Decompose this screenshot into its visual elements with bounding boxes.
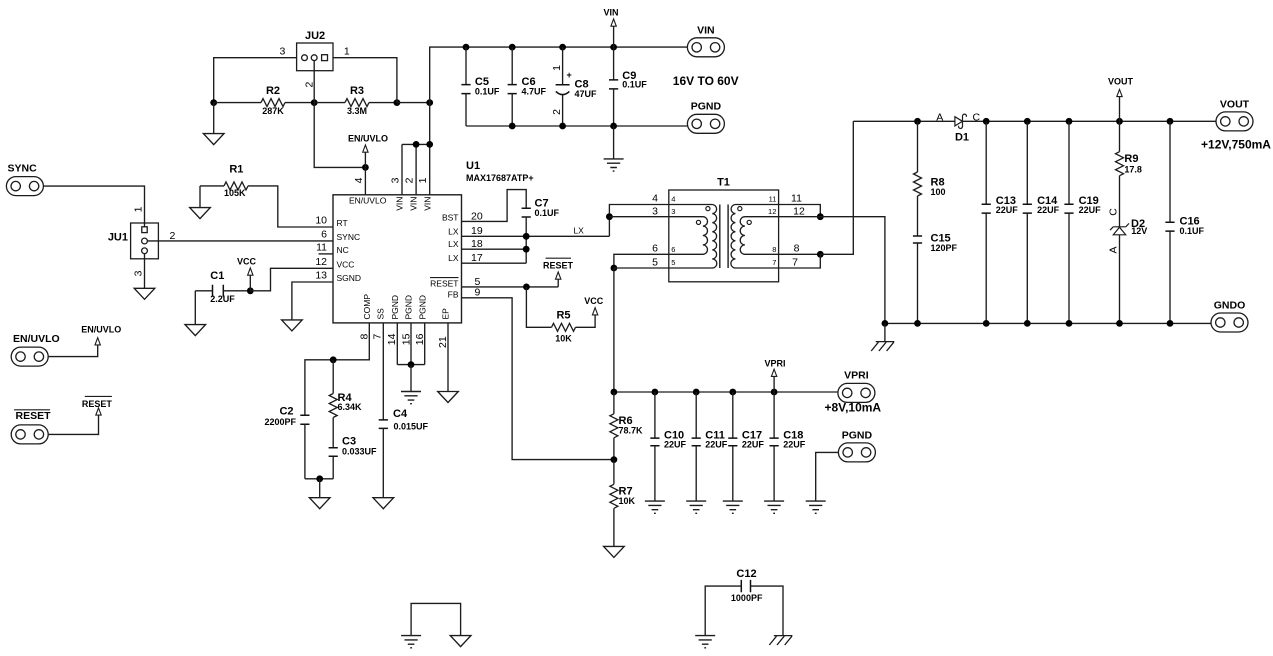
svg-text:2200PF: 2200PF [264,417,296,427]
svg-text:7: 7 [772,258,776,267]
net flag EN/UVLO (left) [95,338,100,345]
wire VOUT rail left of D1 [853,120,955,122]
svg-text:11: 11 [769,195,777,204]
wire PGND ground stub [613,126,615,159]
junction C6 bottom [509,123,516,130]
wire EN/UVLO flag stub [364,152,366,167]
svg-text:0.1UF: 0.1UF [1180,226,1205,236]
phase dot winding 3-6 [696,220,700,224]
junction LX pin18 [523,246,530,253]
svg-text:47UF: 47UF [575,89,598,99]
ground (open triangle) below R2 node [203,134,224,145]
wire C1 right lead [223,290,250,292]
wire VOUT rail right of D1 [963,120,1217,122]
junction R3 right / JU2 pin1 [394,99,401,106]
svg-text:3: 3 [132,270,144,276]
junction C9 top [610,44,617,51]
svg-text:VIN: VIN [395,197,405,211]
wire C19 bottom lead [1068,213,1070,323]
svg-text:6: 6 [671,245,675,254]
wire R8 to C15 [917,196,919,236]
junction C5 top [463,44,470,51]
capacitor C11 [692,438,701,446]
wire chassis ground stub at GNDO [884,323,886,341]
connector SYNC [6,177,43,196]
wire U1 LX pin19 (LX net) [462,235,610,237]
wire C4 bottom lead [382,428,384,497]
svg-text:3: 3 [279,46,285,58]
wire C8 bottom lead [562,95,564,126]
wire JU2 pin3 to ground node [214,58,297,103]
ground (open triangle) below EP [438,392,459,403]
wire C18 top lead [773,392,775,438]
svg-text:EN/UVLO: EN/UVLO [348,133,388,143]
wire EN/UVLO connector to flag [48,345,97,357]
svg-text:JU1: JU1 [108,231,128,243]
wire VCC flag stub at C1 [249,275,251,291]
svg-text:VCC: VCC [584,296,604,306]
connector VPRI [838,383,875,402]
svg-text:EP: EP [441,308,451,320]
wire R1 to U1 RT [248,186,333,227]
svg-text:14: 14 [386,333,398,345]
jumper JU1 [131,223,159,259]
wire PGND pins tie [397,364,424,366]
svg-text:SGND: SGND [337,273,362,283]
capacitor C13 [982,204,991,213]
wire U1 pin2 VIN [415,144,417,194]
svg-text:22UF: 22UF [1079,205,1102,215]
svg-text:0.033UF: 0.033UF [342,446,377,456]
wire secondary to VOUT rail [820,121,853,254]
svg-text:R2: R2 [266,85,280,97]
svg-text:D1: D1 [955,132,969,144]
junction R2 left / ground [210,99,217,106]
connector PGND (VPRI side) [838,443,875,462]
ground (earth) below input caps [604,159,624,171]
wire PGND connector to ground [816,452,839,501]
phase dot winding 11-7 [738,207,742,211]
svg-text:SYNC: SYNC [337,232,361,242]
junction C18 top / VPRI flag [771,389,778,396]
ground (open triangle) below JU1 [134,288,155,299]
junction C16 top [1167,118,1174,125]
svg-text:8: 8 [358,334,370,340]
svg-text:RESET: RESET [543,261,574,271]
wire C9 top lead [613,47,615,80]
svg-text:1000PF: 1000PF [731,593,763,603]
wire U1 PGND pin14 [396,323,398,365]
wire ground stub below C2/C3 [319,479,321,498]
capacitor C10 [650,438,659,446]
wire VIN power flag stub [613,26,615,47]
wire VPRI rail [614,391,838,393]
junction JU2 pin2 / R2 / R3 [311,99,318,106]
svg-text:VOUT: VOUT [1220,98,1250,110]
svg-text:3.3M: 3.3M [347,106,367,116]
svg-text:3: 3 [389,177,401,183]
transformer T1 primary winding pins 4-5 [669,205,717,269]
connector GNDO [1211,313,1248,332]
resistor R6 [610,414,618,438]
ground (chassis) at GNDO rail [871,342,894,351]
junction R8 top [914,118,921,125]
wire C7 bottom to LX node [525,217,527,263]
wire D2 anode to GNDO rail [1119,235,1121,324]
wire R6 top lead [613,392,615,414]
ground (earth) below U1 PGND [401,392,421,404]
svg-text:11: 11 [316,241,327,253]
wire VIN pins tie [402,143,430,145]
transformer T1 primary winding pins 3-6 [669,217,708,255]
svg-text:0.015UF: 0.015UF [394,422,429,432]
ground (earth) below C12 left [695,636,715,648]
svg-text:6: 6 [321,228,327,240]
svg-text:NC: NC [337,245,349,255]
wire bottom input rail [466,125,687,127]
svg-text:RESET: RESET [16,410,52,422]
svg-text:EN/UVLO: EN/UVLO [81,324,121,334]
wire U1 EP to ground [447,323,449,392]
wire C19 top lead [1068,121,1070,204]
svg-text:LX: LX [448,239,459,249]
junction C2/C3 ground [316,475,323,482]
svg-text:BST: BST [442,212,459,222]
svg-text:7: 7 [792,256,798,268]
svg-text:2.2UF: 2.2UF [210,294,235,304]
capacitor C5 [461,85,470,94]
svg-text:RESET: RESET [82,399,113,409]
resistor R8 [914,172,922,196]
diode D1 (schottky) [955,114,967,128]
svg-text:17: 17 [471,252,483,264]
svg-text:4.7UF: 4.7UF [522,87,547,97]
svg-text:VCC: VCC [337,259,355,269]
svg-text:78.7K: 78.7K [619,425,644,435]
diode D2 (zener 12V) [1110,223,1129,234]
ground (open triangle) at SGND [282,320,303,331]
capacitor C19 [1064,204,1073,213]
wire T1 pin5 [614,267,669,269]
svg-text:2: 2 [551,109,563,115]
svg-text:22UF: 22UF [783,439,806,449]
svg-text:C2: C2 [279,405,293,417]
svg-text:12: 12 [768,207,776,216]
svg-text:U1: U1 [466,160,480,172]
wire JU2 pin1 down to R3 right [333,58,397,103]
wire C6 top lead [511,47,513,85]
wire C2 bottom lead [304,424,306,479]
capacitor C3 [329,448,338,457]
svg-text:20: 20 [471,210,483,222]
svg-text:EN/UVLO: EN/UVLO [13,333,60,345]
wire C14 top lead [1026,121,1028,204]
svg-text:12V: 12V [1131,226,1147,236]
svg-text:0.1UF: 0.1UF [622,80,647,90]
ground (open triangle) at tie right [450,636,471,647]
connector RESET [11,425,48,444]
svg-text:10K: 10K [619,496,636,506]
wire C10 bottom lead [654,446,656,501]
wire C11 bottom lead [695,446,697,501]
svg-text:R3: R3 [350,85,364,97]
svg-text:6.34K: 6.34K [338,402,363,412]
svg-text:+12V,750mA: +12V,750mA [1201,137,1271,151]
svg-text:LX: LX [448,253,459,263]
junction LX pin19 / C7 [523,233,530,240]
wire C5 bottom lead [465,94,467,126]
wire VIN rail (vertical + top horizontal) [430,47,688,195]
wire U1 RESET pin5 [462,286,559,288]
svg-text:PGND: PGND [417,295,427,320]
svg-text:22UF: 22UF [1037,205,1060,215]
wire C12 left lead to ground [705,586,741,636]
svg-text:100: 100 [931,187,946,197]
svg-text:COMP: COMP [362,294,372,320]
svg-text:105K: 105K [224,188,246,198]
svg-text:LX: LX [448,226,459,236]
connector PGND (input) [687,114,724,133]
junction FB / R6 / R7 [611,456,618,463]
svg-text:A: A [1108,246,1120,253]
wire U1 COMP to C2/R4 node [305,323,369,415]
op-amp U1 MAX17687ATP+ body [333,195,462,323]
svg-text:VIN: VIN [409,197,419,211]
wire C1 left lead to ground [195,291,212,325]
capacitor C9 [609,80,618,89]
junction C17 top [729,389,736,396]
capacitor C14 [1023,204,1032,213]
wire RESET node down to R5 [526,287,551,327]
junction D2 bottom [1116,320,1123,327]
transformer T1 secondary winding pins 12-8 [740,217,778,255]
svg-text:VIN: VIN [697,25,715,37]
power flag VIN [611,19,616,26]
wire C15 bottom lead [917,243,919,323]
ground (open triangle) at R1 [190,208,211,219]
junction C11 top [693,389,700,396]
capacitor C6 [508,85,517,94]
wire C9 bottom lead [613,89,615,126]
wire C1 node to U1 VCC [250,268,333,291]
capacitor C17 [728,438,737,446]
capacitor C18 [770,438,779,446]
wire U1 LX pin18 [462,248,527,250]
wire R1 left lead [200,185,224,187]
net flag EN/UVLO at U1 pin4 [363,145,368,152]
ground (open triangle) below C1 [185,325,206,336]
junction R9 top [1116,118,1123,125]
junction T1 pin3 / LX [606,213,613,220]
ground (earth) below C17 [723,501,743,513]
transformer T1 body [669,190,779,282]
svg-text:PGND: PGND [842,429,873,441]
None [741,580,750,592]
svg-text:LX: LX [573,226,584,236]
svg-text:VPRI: VPRI [844,370,869,382]
capacitor C8 (polarized) [556,85,570,95]
capacitor C16 [1165,222,1174,231]
wire U1 BST to C7 [462,190,527,222]
connector VIN [687,38,724,57]
wire R3 right lead [369,102,397,104]
junction C8 bottom [559,123,566,130]
svg-text:1: 1 [344,46,350,58]
svg-text:4: 4 [671,195,675,204]
resistor R3 [345,99,369,107]
svg-text:11: 11 [791,192,802,204]
wire GNDO rail [885,322,1212,324]
svg-text:17.8: 17.8 [1124,164,1142,174]
resistor R2 [261,99,285,107]
wire U1 SS to C4 [382,323,384,420]
junction C13 top / D1 cathode [983,118,990,125]
ground (earth) below PGND connector [806,501,826,513]
svg-text:1: 1 [132,206,144,212]
wire T1 pin8 [779,253,821,255]
resistor R7 [610,484,618,508]
wire C13 bottom lead [985,213,987,323]
svg-text:22UF: 22UF [664,439,687,449]
svg-text:5: 5 [652,256,658,268]
junction VIN pin2 tie [413,141,420,148]
svg-text:2: 2 [404,177,416,183]
connector EN/UVLO [11,347,48,366]
svg-text:+8V,10mA: +8V,10mA [824,400,881,414]
wire C17 bottom lead [732,446,734,501]
resistor R9 [1116,152,1124,176]
svg-text:RESET: RESET [430,278,458,288]
junction C8 top [559,44,566,51]
wire T1 pin3 [609,216,668,218]
wire VPRI vertical [613,268,615,392]
wire R4 top lead [332,360,334,394]
svg-text:0.1UF: 0.1UF [475,87,500,97]
resistor R1 [224,182,248,190]
svg-text:22UF: 22UF [996,205,1019,215]
svg-text:PGND: PGND [390,295,400,320]
junction T1 pin11/pin12 [817,213,824,220]
wire C5 top lead [465,47,467,85]
junction C10 top [652,389,659,396]
svg-text:RT: RT [337,218,348,228]
svg-text:GNDO: GNDO [1214,300,1246,312]
net flag RESET (left) [96,408,101,415]
svg-text:VOUT: VOUT [1108,76,1134,86]
ground (open triangle) below R7 [604,546,625,557]
wire C16 top lead [1169,121,1171,222]
svg-text:C1: C1 [210,270,224,282]
junction C19 top [1066,118,1073,125]
svg-text:9: 9 [475,287,481,299]
resistor R5 [552,323,576,331]
wire R1 ground stub [199,186,201,208]
junction pin12 line / GNDO rail [882,320,889,327]
wire C3 bottom lead [332,456,334,479]
wire R3 node to VIN rail [397,102,430,104]
wire C6 bottom lead [511,94,513,126]
svg-text:3: 3 [652,206,658,218]
jumper JU2 [297,43,333,71]
svg-text:1: 1 [417,177,429,183]
wire C8 top lead [562,47,564,85]
svg-text:C12: C12 [736,568,756,580]
capacitor C7 [522,208,531,217]
svg-text:A: A [936,111,943,123]
wire R5 right to VCC flag [576,315,596,327]
wire U1 FB to R6/R7 node [462,298,614,460]
svg-text:22UF: 22UF [705,439,728,449]
capacitor C2 [300,415,309,424]
svg-text:8: 8 [794,243,800,255]
svg-text:SS: SS [376,308,386,320]
wire ground tie U-shape [411,603,461,635]
svg-text:13: 13 [315,270,327,282]
wire T1 pin6 [614,254,669,268]
capacitor C15 [913,236,922,243]
svg-text:16V TO 60V: 16V TO 60V [673,74,739,88]
ground (open triangle) below C4 [373,498,394,509]
wire R6 bottom lead [613,438,615,460]
svg-text:C4: C4 [393,408,408,420]
wire C2/C3 bottom tie [305,478,333,480]
junction C14 top [1024,118,1031,125]
wire C13 top lead [985,121,987,204]
connector VOUT [1216,112,1253,131]
junction C6 top [509,44,516,51]
ground (earth) below C18 [764,501,784,513]
wire U1 pin3 VIN [401,144,403,194]
wire SYNC to JU1 pin1 [43,186,144,227]
svg-text:PGND: PGND [691,101,722,113]
junction VIN pin1 tie [426,141,433,148]
svg-text:120PF: 120PF [931,243,958,253]
wire VPRI flag stub [773,376,775,392]
svg-text:8: 8 [772,245,776,254]
junction VCC at C1 [247,287,254,294]
svg-text:SYNC: SYNC [8,163,38,175]
svg-text:5: 5 [671,258,675,267]
junction C19 bottom [1066,320,1073,327]
junction T1 pin5 / VPRI line [611,265,618,272]
wire JU2 pin2 down to EN/UVLO node [314,61,365,168]
svg-text:12: 12 [793,206,805,218]
capacitor C4 [379,420,388,429]
wire R9 top lead [1119,121,1121,151]
wire R2 left lead [214,102,261,104]
wire ground stub below R2 node [213,103,215,134]
junction COMP / R4 [330,356,337,363]
junction EN/UVLO at U1 pin4 [362,164,369,171]
wire U1 LX pin17 [462,262,527,264]
wire C17 top lead [732,392,734,438]
wire PGND tie to ground [410,365,412,392]
power flag VCC at C1 [248,268,253,275]
ground (earth) at tie left [401,636,421,648]
svg-text:+: + [566,70,571,80]
svg-text:EN/UVLO: EN/UVLO [349,196,387,206]
junction PGND pins [408,361,415,368]
junction T1 pin8/pin7 [817,251,824,258]
power flag VCC at R5 [592,308,597,315]
svg-text:VPRI: VPRI [764,358,785,368]
svg-text:R9: R9 [1124,153,1138,165]
wire U1 pin4 EN/UVLO [364,167,366,194]
phase dot winding 4-5 [706,207,710,211]
svg-text:22UF: 22UF [742,439,765,449]
junction RESET pin5 / R5 [523,284,530,291]
junction C13 bottom [983,320,990,327]
